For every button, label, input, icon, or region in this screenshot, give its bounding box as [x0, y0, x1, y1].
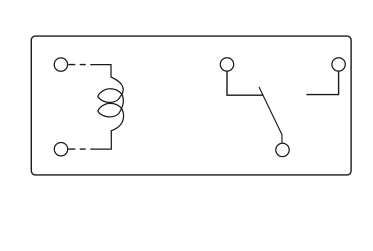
terminal pin 3 (NC contact)	[220, 58, 233, 71]
coil L1	[90, 65, 123, 150]
wire pin5 to NO contact point	[306, 71, 338, 94]
wire pin3 to NC contact point	[227, 71, 263, 95]
switch arm	[259, 87, 282, 143]
wire dashed segment coil to pin 2	[68, 148, 85, 150]
terminal pin 1 (coil top)	[54, 58, 67, 71]
relay body outline	[31, 36, 351, 175]
terminal pin 4 (common)	[276, 143, 289, 156]
wire dashed segment pin1 to coil	[68, 64, 85, 66]
terminal pin 5 (NO contact)	[332, 58, 345, 71]
terminal pin 2 (coil bottom)	[54, 143, 67, 156]
